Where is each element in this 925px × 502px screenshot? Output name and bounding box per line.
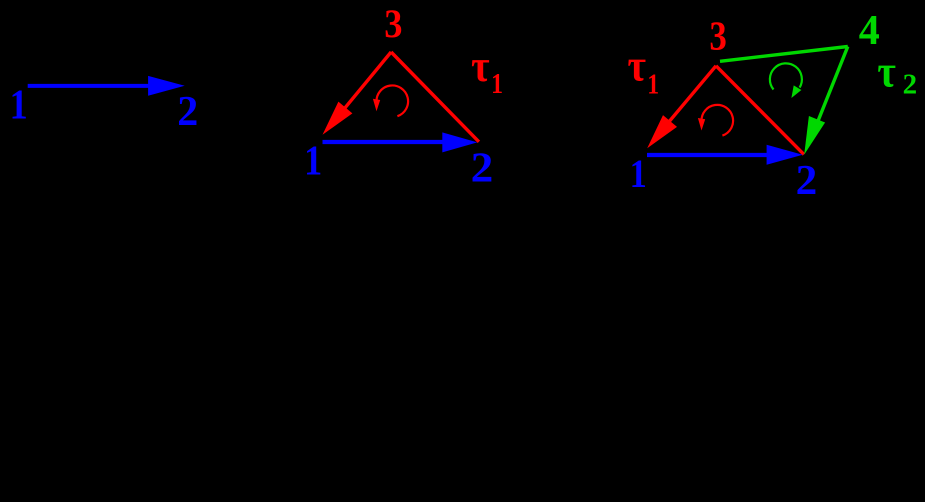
- svg-text:3: 3: [384, 3, 402, 47]
- wire: red edge 3->1 (fig3): [652, 66, 716, 142]
- red arc arrowhead fig2: [373, 99, 380, 112]
- green orientation arc (clockwise) fig3: [770, 63, 802, 89]
- svg-text:1: 1: [630, 152, 647, 196]
- wire: green edge 3->4: [720, 47, 848, 62]
- red arrowhead at vertex 1 (fig3): [647, 115, 677, 148]
- blue arrowhead on edge 1->2 (fig2): [442, 132, 477, 152]
- wire: red edge 3->2 (fig3): [716, 66, 804, 155]
- svg-text:2: 2: [177, 89, 198, 135]
- svg-text:2: 2: [796, 157, 818, 203]
- svg-text:1: 1: [304, 137, 322, 184]
- green arc arrowhead fig3: [791, 85, 801, 98]
- blue arrowhead on edge 1->2: [148, 76, 185, 96]
- svg-text:2: 2: [471, 145, 494, 191]
- wire: blue edge line 1->2 (fig3): [647, 153, 775, 157]
- svg-text:τ: τ: [877, 47, 896, 97]
- wire: red edge 3->1: [328, 52, 391, 128]
- svg-text:τ: τ: [627, 41, 646, 91]
- svg-text:τ: τ: [471, 41, 490, 91]
- red orientation arc (counterclockwise) fig2: [376, 85, 408, 116]
- svg-text:2: 2: [903, 68, 918, 100]
- wire: blue edge line 1->2 (fig2): [323, 140, 451, 144]
- wire: blue edge line 1-2: [28, 84, 155, 88]
- svg-text:1: 1: [647, 69, 659, 100]
- wire: red edge 3->2: [391, 52, 479, 142]
- green arrowhead at vertex 2 (fig3): [804, 116, 825, 155]
- wire: green edge 4->2: [812, 47, 848, 137]
- red arrowhead at vertex 1 (fig2): [323, 102, 353, 135]
- svg-text:1: 1: [491, 68, 503, 99]
- red orientation arc (counterclockwise) fig3: [701, 105, 733, 136]
- svg-text:3: 3: [709, 14, 726, 59]
- blue arrowhead on edge 1->2 (fig3): [767, 145, 803, 165]
- red arc arrowhead fig3: [698, 118, 705, 131]
- svg-text:1: 1: [10, 81, 28, 128]
